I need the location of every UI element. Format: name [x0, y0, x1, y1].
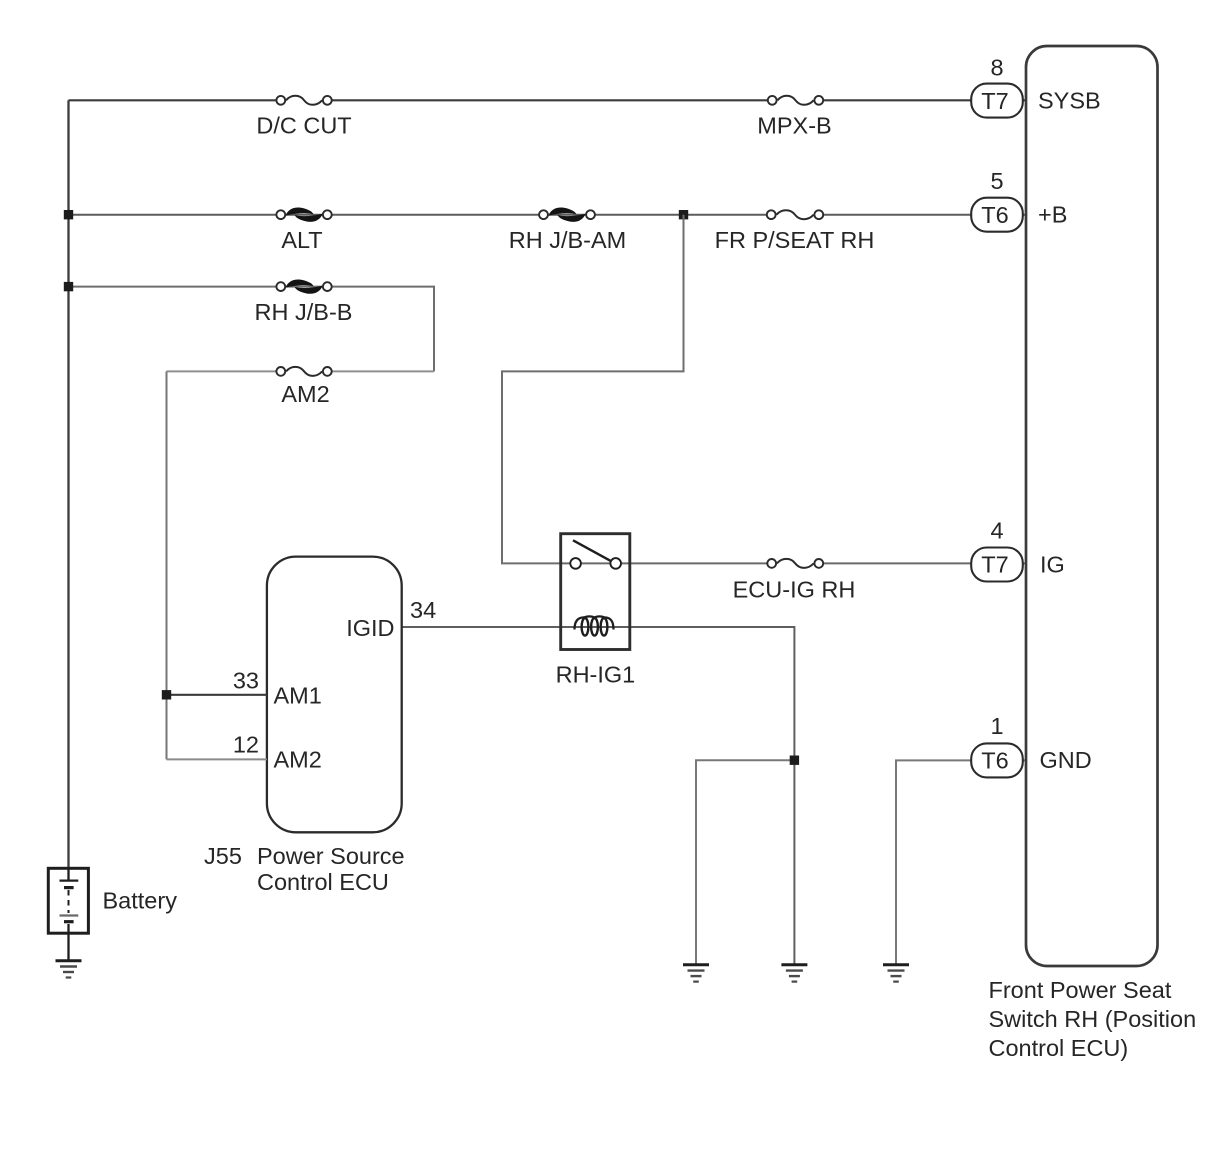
- wire AM1/AM2 feed vertical: [166, 371, 168, 759]
- pin AM2 wire: [167, 758, 267, 760]
- svg-text:T6: T6: [981, 202, 1008, 228]
- svg-text:8: 8: [990, 55, 1003, 81]
- battery plate long bottom: [60, 914, 79, 916]
- wire left vertical battery bus: [67, 100, 69, 868]
- relay switch blade: [573, 540, 612, 561]
- fusible link RH J/B-B: [255, 279, 353, 325]
- svg-text:+B: +B: [1038, 202, 1067, 228]
- svg-text:IGID: IGID: [346, 615, 394, 641]
- svg-text:ALT: ALT: [281, 227, 322, 253]
- terminal T6 pin 1 GND: [971, 713, 1092, 777]
- wire GND terminal to ground: [896, 760, 1026, 964]
- svg-text:D/C CUT: D/C CUT: [256, 113, 351, 139]
- fuse ECU-IG RH: [733, 559, 856, 603]
- wire top horizontal SYSB row: [69, 99, 1027, 101]
- svg-text:Control ECU): Control ECU): [989, 1035, 1129, 1061]
- battery plate long top: [60, 879, 79, 881]
- node junction +B row / relay feed: [679, 210, 688, 219]
- svg-text:AM1: AM1: [274, 683, 322, 709]
- svg-text:IG: IG: [1040, 552, 1065, 578]
- terminal T7 pin 8 SYSB: [971, 55, 1101, 118]
- svg-text:T7: T7: [981, 88, 1008, 114]
- svg-text:J55: J55: [204, 843, 242, 869]
- node junction battery bus / +B row: [64, 210, 73, 219]
- fuse AM2: [276, 367, 331, 407]
- svg-text:RH J/B-B: RH J/B-B: [255, 299, 353, 325]
- svg-text:4: 4: [990, 518, 1003, 544]
- wire relay feed: +B junction down, left, down to relay switch: [502, 215, 684, 564]
- svg-text:34: 34: [410, 597, 436, 623]
- ground GND terminal: [883, 965, 909, 982]
- battery dashed middle: [68, 890, 70, 913]
- wire AM2 fuse row horizontal: [167, 370, 435, 372]
- svg-text:FR P/SEAT RH: FR P/SEAT RH: [715, 227, 875, 253]
- wire +B row horizontal: [69, 214, 1027, 216]
- battery plate short top: [64, 886, 74, 889]
- fusible link RH J/B-AM: [509, 208, 627, 253]
- fuse FR P/SEAT RH: [715, 210, 875, 253]
- svg-text:5: 5: [990, 168, 1003, 194]
- svg-text:T7: T7: [981, 552, 1008, 578]
- node junction AM1 branch: [162, 690, 171, 699]
- relay coil: [575, 616, 614, 629]
- svg-text:GND: GND: [1040, 747, 1092, 773]
- svg-text:Control ECU: Control ECU: [257, 869, 389, 895]
- fuse MPX-B: [757, 96, 831, 139]
- relay contact left: [570, 558, 581, 569]
- ground coil: [781, 965, 807, 982]
- svg-text:Switch RH (Position: Switch RH (Position: [989, 1006, 1197, 1032]
- battery top wire into cell: [67, 868, 69, 880]
- svg-text:33: 33: [233, 668, 259, 694]
- fusible link ALT: [276, 208, 331, 253]
- relay contact right: [610, 558, 621, 569]
- svg-text:1: 1: [990, 713, 1003, 739]
- svg-text:ECU-IG RH: ECU-IG RH: [733, 577, 856, 603]
- relay RH-IG1: [556, 534, 636, 688]
- node junction coil ground branch: [790, 756, 799, 765]
- wire ground branch left of coil: [696, 760, 794, 964]
- ground battery: [56, 961, 82, 978]
- wire RH J/B-B row horizontal: [69, 287, 435, 372]
- wire IGID coil line: [402, 627, 795, 965]
- svg-text:12: 12: [233, 732, 259, 758]
- connector box Front Power Seat Switch RH: [989, 46, 1197, 1061]
- svg-text:T6: T6: [981, 748, 1008, 774]
- battery plate short bottom: [64, 920, 74, 923]
- ground left of coil: [683, 965, 709, 982]
- svg-text:SYSB: SYSB: [1038, 88, 1101, 114]
- svg-text:MPX-B: MPX-B: [757, 113, 831, 139]
- svg-text:Power Source: Power Source: [257, 843, 405, 869]
- svg-text:Battery: Battery: [103, 888, 178, 914]
- terminal T7 pin 4 IG: [971, 518, 1065, 582]
- terminal T6 pin 5 +B: [971, 168, 1067, 232]
- svg-text:Front Power Seat: Front Power Seat: [989, 977, 1172, 1003]
- ECU box J55: [162, 557, 436, 895]
- battery: [48, 868, 177, 960]
- svg-text:RH-IG1: RH-IG1: [556, 662, 636, 688]
- svg-text:AM2: AM2: [274, 747, 322, 773]
- wire switch output to IG terminal: [561, 562, 1026, 564]
- svg-text:AM2: AM2: [281, 381, 329, 407]
- node junction battery bus / RH J/B-B row: [64, 282, 73, 291]
- battery bottom wire: [67, 924, 69, 961]
- pin AM1 wire: [167, 694, 267, 696]
- svg-text:RH J/B-AM: RH J/B-AM: [509, 227, 627, 253]
- fuse D/C CUT: [256, 96, 351, 139]
